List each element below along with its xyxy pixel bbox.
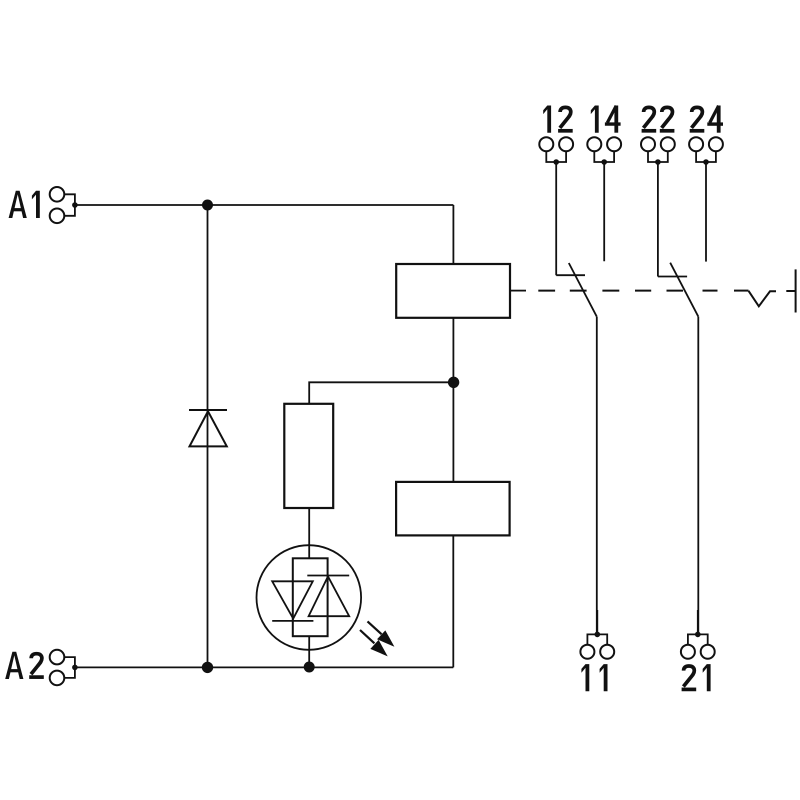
terminal 21 [681, 634, 715, 658]
mechanical link dashes [538, 290, 748, 292]
contact 1 blade [569, 263, 597, 317]
resistor R1 [284, 404, 333, 508]
terminal 24 [689, 137, 723, 162]
wire 11 up [596, 610, 598, 634]
wire 14 down [603, 162, 605, 261]
label 24 [690, 107, 705, 130]
contact 2 fixed NC stub [658, 276, 687, 278]
label 11 [581, 664, 589, 691]
mechanical link end dash [786, 290, 795, 292]
wire 21 up [697, 610, 699, 634]
LED left bar [272, 620, 313, 622]
wire A1 horizontal [75, 204, 454, 206]
diode V1 triangle [190, 411, 227, 446]
label 12 [543, 106, 551, 133]
wire resistor to LED [308, 508, 310, 558]
terminal 11 dot [595, 632, 601, 638]
LED left triangle [272, 581, 313, 618]
terminal 12 dot [553, 159, 559, 165]
junction dot diode-A2 [202, 662, 213, 673]
LED right bar [307, 575, 349, 577]
terminal A1 [50, 187, 75, 223]
label A2 [5, 652, 23, 679]
label 22 [642, 107, 657, 130]
test button notch [749, 291, 777, 307]
coil box upper [396, 264, 510, 318]
diode V1 cathode bar [189, 409, 227, 411]
junction dot LED-A2 [304, 662, 315, 673]
wire contact 2 to 21 [697, 317, 699, 635]
terminal 14 [587, 137, 621, 162]
junction dot A1-diode [202, 200, 213, 211]
terminal A2 [50, 650, 75, 685]
label A1 [9, 191, 27, 218]
terminal 14 dot [601, 159, 607, 165]
wire contact 1 to 11 [596, 317, 598, 635]
terminal 22 [641, 137, 675, 162]
LED inner rect [293, 558, 328, 636]
coil box lower [396, 482, 510, 536]
terminal 11 [580, 634, 614, 658]
terminal 22 dot [655, 159, 661, 165]
LED indicator circle [257, 545, 362, 650]
LED arrow 2 [360, 630, 385, 654]
label 14 [591, 106, 599, 133]
terminal A1 dot [72, 202, 78, 208]
terminal 12 [539, 137, 573, 162]
contact 2 blade [670, 263, 698, 317]
junction dot coil-resistor [448, 377, 459, 388]
wire resistor top [309, 382, 453, 404]
wire 24 down [705, 162, 707, 262]
terminal A2 dot [72, 665, 78, 671]
contact 1 fixed NC stub [556, 274, 585, 276]
wire coil bottom [452, 318, 454, 482]
wire 22 down [657, 162, 659, 277]
mechanical link solid stub [510, 290, 526, 292]
mechanical link end bar [795, 269, 797, 312]
wire A1 to coil [452, 205, 454, 264]
diode V1 wire branch [207, 205, 209, 667]
wire box lower bottom [452, 535, 454, 667]
terminal 24 dot [703, 159, 709, 165]
label 21 [682, 666, 697, 689]
LED arrow 1 [368, 621, 392, 644]
wire A2 horizontal [75, 666, 453, 668]
LED right triangle [309, 576, 350, 616]
wire 12 down [555, 162, 557, 275]
wire LED bottom [308, 636, 310, 667]
terminal 21 dot [695, 632, 701, 638]
